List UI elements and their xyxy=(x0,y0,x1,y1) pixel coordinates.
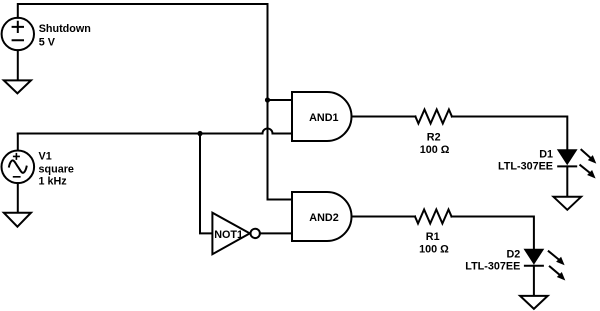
svg-text:Shutdown: Shutdown xyxy=(39,23,91,35)
svg-text:NOT1: NOT1 xyxy=(214,229,243,241)
LED D1 xyxy=(558,150,576,164)
svg-text:R2: R2 xyxy=(427,132,441,144)
wire V1 top riser xyxy=(17,134,19,151)
svg-text:LTL-307EE: LTL-307EE xyxy=(465,260,520,272)
wire AND2 output xyxy=(352,216,416,218)
wire R2 to D1 xyxy=(452,117,567,151)
svg-text:100 Ω: 100 Ω xyxy=(420,144,450,156)
and-gate AND2 xyxy=(292,192,351,241)
wire shutdown top to node xyxy=(18,4,268,18)
wire D2 to ground xyxy=(533,266,535,296)
svg-text:AND1: AND1 xyxy=(309,112,338,124)
wire V1 to AND1 lower input (with hop over vertical) xyxy=(18,129,292,134)
wire D1 to ground xyxy=(566,166,568,196)
ground (D2) xyxy=(520,296,548,309)
ground (shutdown) xyxy=(4,80,31,93)
wire AND1 upper input xyxy=(268,99,293,101)
wire NOT1 output to AND2 lower input xyxy=(260,232,292,234)
and-gate AND1 xyxy=(292,92,351,141)
svg-text:D1: D1 xyxy=(539,148,553,160)
svg-text:square: square xyxy=(39,163,74,175)
wire shutdown bottom to ground xyxy=(17,50,19,80)
svg-text:D2: D2 xyxy=(506,248,520,260)
svg-text:1 kHz: 1 kHz xyxy=(39,176,68,188)
svg-text:V1: V1 xyxy=(39,151,52,163)
ground (D1) xyxy=(554,197,582,210)
resistor R2 xyxy=(415,110,452,124)
voltage source V1 xyxy=(2,151,35,184)
svg-text:LTL-307EE: LTL-307EE xyxy=(498,160,553,172)
wire shutdown-node vertical to AND2 upper input xyxy=(268,4,293,200)
svg-text:AND2: AND2 xyxy=(309,212,338,224)
svg-text:100 Ω: 100 Ω xyxy=(419,243,449,255)
svg-text:5 V: 5 V xyxy=(39,36,56,48)
wire NOT1 input branch xyxy=(200,134,212,234)
voltage source V2 Shutdown xyxy=(2,18,34,50)
node junction NOT1 branch xyxy=(197,131,202,136)
inverter NOT1 xyxy=(212,213,249,255)
LED D2 xyxy=(525,250,543,264)
resistor R1 xyxy=(415,210,452,224)
svg-text:R1: R1 xyxy=(426,231,440,243)
ground (V1) xyxy=(4,213,31,227)
wire V1 bottom to ground xyxy=(17,183,19,213)
wire AND1 output xyxy=(352,116,416,118)
wire R1 to D2 xyxy=(452,217,534,250)
node junction on AND1 input xyxy=(265,97,270,102)
